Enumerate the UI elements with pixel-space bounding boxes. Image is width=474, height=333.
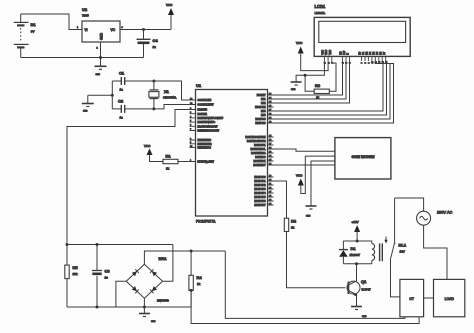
wire CT pin to R4 bottom xyxy=(191,290,419,323)
relay switch contacts xyxy=(391,198,400,297)
svg-text:RB2: RB2 xyxy=(261,103,266,105)
battery B1 xyxy=(14,14,37,58)
svg-text:RB0/INT: RB0/INT xyxy=(257,95,266,97)
svg-text:RB3/PGM: RB3/PGM xyxy=(255,107,265,109)
resistor R5 xyxy=(65,245,79,308)
svg-text:R4: R4 xyxy=(197,275,203,280)
svg-text:Q1: Q1 xyxy=(361,279,367,284)
svg-text:X1: X1 xyxy=(164,89,170,94)
svg-text:B1: B1 xyxy=(31,22,37,27)
svg-text:GND: GND xyxy=(291,89,296,91)
svg-text:R5: R5 xyxy=(73,265,79,270)
capacitor C2 xyxy=(112,99,154,120)
svg-text:RC1/T1OSI/CCP2: RC1/T1OSI/CCP2 xyxy=(247,141,266,143)
resistor R4 xyxy=(189,251,202,290)
svg-text:D7: D7 xyxy=(383,51,386,55)
capacitor C1 xyxy=(112,71,154,92)
svg-text:RC5/SDO: RC5/SDO xyxy=(255,157,265,159)
capacitor C3 xyxy=(92,245,111,308)
svg-text:12V: 12V xyxy=(400,250,405,254)
resistor R1 xyxy=(163,154,190,171)
CT box xyxy=(400,279,424,316)
node relay coil top xyxy=(356,240,359,243)
svg-text:OSC2/CLKOUT: OSC2/CLKOUT xyxy=(198,105,215,107)
svg-text:1k: 1k xyxy=(166,167,170,171)
svg-text:RE2/AN7/CS: RE2/AN7/CS xyxy=(198,147,212,150)
svg-text:VO: VO xyxy=(111,28,116,32)
svg-text:1n: 1n xyxy=(120,88,124,92)
regulator U2 7805 xyxy=(77,7,124,50)
wire R2 to Q1 base xyxy=(287,232,346,288)
svg-text:PIC16F877A: PIC16F877A xyxy=(196,220,216,224)
wire LCD RS to U1 RB0 xyxy=(274,61,343,95)
svg-text:GND: GND xyxy=(100,32,104,40)
svg-text:OSC1/CLKIN: OSC1/CLKIN xyxy=(198,100,212,102)
svg-text:RA1/AN1: RA1/AN1 xyxy=(198,113,208,116)
svg-text:VCC: VCC xyxy=(296,41,303,45)
bridge rectifier BR1 xyxy=(126,256,169,303)
svg-text:VDD: VDD xyxy=(325,49,328,54)
node crystal top xyxy=(152,80,155,83)
svg-text:7: 7 xyxy=(362,62,364,64)
svg-text:RD6/PSP6: RD6/PSP6 xyxy=(254,201,266,203)
wire U2 gnd stem xyxy=(100,42,102,58)
svg-text:9: 9 xyxy=(369,62,371,64)
svg-text:9V: 9V xyxy=(31,30,35,34)
wire LCD RW to U1 RB1 xyxy=(274,61,347,99)
svg-text:1: 1 xyxy=(77,27,79,29)
svg-text:CT: CT xyxy=(409,297,414,301)
svg-text:1N4007: 1N4007 xyxy=(350,253,361,257)
GSM modem module xyxy=(335,138,391,179)
svg-text:RE1/AN6/WR: RE1/AN6/WR xyxy=(198,143,212,146)
crystal X1 xyxy=(149,81,177,109)
junction node C4 top xyxy=(142,28,145,31)
svg-text:RD7/PSP7: RD7/PSP7 xyxy=(254,205,266,207)
svg-text:RC7/RX/DT: RC7/RX/DT xyxy=(253,165,266,167)
svg-text:RB7/PGD: RB7/PGD xyxy=(255,123,265,125)
power VCC (GSM) xyxy=(296,156,335,193)
svg-text:GND: GND xyxy=(83,111,88,113)
svg-text:RA3/AN3/VREF+: RA3/AN3/VREF+ xyxy=(198,121,216,124)
wire relay loop top xyxy=(343,240,366,242)
svg-text:10: 10 xyxy=(372,60,374,63)
svg-text:RB6/PGC: RB6/PGC xyxy=(255,119,265,121)
relay RL1 coil xyxy=(367,237,407,264)
wire rail1 (DC sense) xyxy=(67,244,173,246)
wire gnd to rail xyxy=(88,94,113,96)
svg-text:C3: C3 xyxy=(105,269,111,274)
svg-text:RD5/PSP5: RD5/PSP5 xyxy=(254,197,266,199)
wire LCD VSS to ground xyxy=(296,61,324,82)
wire U2 output to VCC xyxy=(120,29,171,31)
AC source 230V xyxy=(395,198,453,279)
wire bridge left vertex down xyxy=(116,281,126,307)
power +12V (relay) xyxy=(352,220,361,241)
node crystal bottom xyxy=(152,107,155,110)
svg-text:RA2/AN2/VREF-/CVREF: RA2/AN2/VREF-/CVREF xyxy=(198,117,224,120)
svg-text:2: 2 xyxy=(97,48,99,50)
svg-text:GND: GND xyxy=(306,216,311,218)
svg-text:LOAD: LOAD xyxy=(445,297,455,301)
svg-text:LCD1: LCD1 xyxy=(315,4,326,9)
capacitor C4 xyxy=(137,30,159,58)
svg-text:RD1/PSP1: RD1/PSP1 xyxy=(254,181,266,183)
node gnd rail junctions xyxy=(96,306,99,309)
wire bottom-left node to RA0 xyxy=(67,110,190,245)
wire LCD D4 to U1 RB4 xyxy=(274,61,384,111)
svg-text:GND: GND xyxy=(96,74,101,76)
node C1C2-gnd junction xyxy=(111,94,114,97)
svg-text:C2: C2 xyxy=(118,99,124,104)
wire LCD D6 to U1 RB6 xyxy=(274,61,391,119)
svg-text:RE0/AN5/RD: RE0/AN5/RD xyxy=(198,139,212,142)
svg-text:RA0/AN0: RA0/AN0 xyxy=(198,109,208,112)
svg-text:R1: R1 xyxy=(166,154,172,159)
svg-text:2W005G: 2W005G xyxy=(157,299,170,303)
wire relay loop bottom xyxy=(343,263,371,265)
svg-text:7805: 7805 xyxy=(82,14,89,18)
svg-text:VCC: VCC xyxy=(144,144,151,148)
svg-text:R3: R3 xyxy=(315,83,321,88)
svg-text:RB4: RB4 xyxy=(261,111,266,113)
svg-text:1u: 1u xyxy=(153,45,157,49)
svg-text:8: 8 xyxy=(365,62,367,64)
svg-text:BC547: BC547 xyxy=(362,288,372,292)
svg-text:1n: 1n xyxy=(120,116,124,120)
svg-text:1k: 1k xyxy=(291,226,295,230)
wire bridge bottom vertex stem xyxy=(143,298,145,307)
svg-text:VSS: VSS xyxy=(322,50,325,55)
wire CT to LOAD xyxy=(424,297,434,299)
svg-text:RD2/PSP2: RD2/PSP2 xyxy=(254,185,266,187)
wire battery to U2 xyxy=(21,14,82,30)
wire U1 RD1 to R2 xyxy=(274,181,287,218)
svg-text:VI: VI xyxy=(85,28,88,32)
wire U1 RC7 to GSM pin4 xyxy=(274,164,335,167)
svg-text:CRYSTAL: CRYSTAL xyxy=(163,96,177,100)
wire GSM pin3 to ground xyxy=(311,161,335,206)
svg-text:RD4/PSP4: RD4/PSP4 xyxy=(254,193,266,195)
resistor R2 xyxy=(284,218,297,231)
resistor R3 (LCD contrast) xyxy=(305,61,336,100)
svg-text:MCLR/Vpp/THV: MCLR/Vpp/THV xyxy=(198,162,215,164)
wire CT pin to rail riser xyxy=(225,251,405,318)
wire C1-C2 left rail xyxy=(111,81,113,109)
svg-text:U2: U2 xyxy=(82,7,88,12)
svg-text:BR1: BR1 xyxy=(159,256,168,261)
node rail2 R4 junction xyxy=(190,250,193,253)
svg-text:230V AC: 230V AC xyxy=(437,210,453,215)
transistor Q1 BC547 xyxy=(347,264,371,306)
wire to OSC1 xyxy=(154,81,190,100)
wire LCD D5 to U1 RB5 xyxy=(274,61,387,115)
svg-text:RL1: RL1 xyxy=(399,243,407,248)
svg-text:10k: 10k xyxy=(73,272,78,276)
wire ground rail (bottom) xyxy=(67,306,191,308)
node R5 top xyxy=(66,243,69,246)
microcontroller U1 PIC16F877A xyxy=(190,83,274,224)
svg-text:LM016L: LM016L xyxy=(315,11,326,15)
wire bottom rail (supply) xyxy=(21,57,144,59)
ground (crystal block) xyxy=(82,95,94,112)
node Q1 collector junction xyxy=(355,262,358,265)
svg-text:RC6/TX/CK: RC6/TX/CK xyxy=(254,161,266,163)
svg-text:RC0/T1OSO/T1CKI: RC0/T1OSO/T1CKI xyxy=(245,137,266,139)
svg-text:RC2/CCP1: RC2/CCP1 xyxy=(254,145,266,147)
svg-text:1u: 1u xyxy=(105,276,109,280)
svg-text:RB1: RB1 xyxy=(261,99,266,101)
diode D1 1N4007 xyxy=(339,241,360,264)
wire U1 RC3 to GSM pin1 xyxy=(274,149,335,151)
svg-text:VCC: VCC xyxy=(296,174,303,178)
ground (GSM) xyxy=(306,206,317,218)
svg-text:VCC: VCC xyxy=(166,3,173,7)
svg-text:VEE: VEE xyxy=(329,50,332,55)
svg-text:U1: U1 xyxy=(196,83,202,88)
svg-text:RC3/SCK/SCL: RC3/SCK/SCL xyxy=(250,149,266,151)
svg-text:3: 3 xyxy=(122,27,124,29)
svg-text:GSM MODEM: GSM MODEM xyxy=(352,155,375,159)
svg-text:R2: R2 xyxy=(291,219,297,224)
svg-text:RA4/T0CKI/C1OUT: RA4/T0CKI/C1OUT xyxy=(198,125,219,128)
ground (LCD) xyxy=(291,82,302,91)
node R4 bottom xyxy=(190,289,193,292)
svg-text:1k: 1k xyxy=(197,282,201,286)
ground (below U2) xyxy=(95,58,107,77)
power VCC (MCLR) xyxy=(144,144,163,162)
wire LCD E to U1 RB2 xyxy=(274,61,350,103)
wire to OSC2 xyxy=(154,105,190,109)
svg-text:GND: GND xyxy=(151,321,156,323)
svg-text:RC4/SDI/SDA: RC4/SDI/SDA xyxy=(251,152,266,155)
svg-text:C4: C4 xyxy=(153,38,159,43)
svg-text:RD3/PSP3: RD3/PSP3 xyxy=(254,189,266,191)
svg-text:D1: D1 xyxy=(351,246,357,251)
power VCC (LCD) xyxy=(296,41,328,71)
svg-text:E: E xyxy=(347,53,350,55)
wire R4 stem through rail xyxy=(190,290,192,307)
svg-text:C1: C1 xyxy=(119,71,125,76)
wire bridge right vertex to rail1 xyxy=(163,245,173,282)
svg-text:GND: GND xyxy=(362,316,367,318)
svg-text:RA5/AN4/SS/C2OUT: RA5/AN4/SS/C2OUT xyxy=(198,130,220,133)
svg-text:RD0/PSP0: RD0/PSP0 xyxy=(254,177,266,179)
svg-text:+12V: +12V xyxy=(352,220,359,224)
ground (Q1 emitter) xyxy=(351,307,367,319)
LCD display LCD1 LM016L xyxy=(314,4,410,64)
power VCC (top) xyxy=(166,3,174,30)
svg-text:RB5: RB5 xyxy=(261,115,266,117)
wire LCD D7 to U1 RB7 xyxy=(274,61,394,123)
ground (bridge) xyxy=(139,307,156,323)
LOAD box xyxy=(434,279,465,316)
node C3 top xyxy=(96,243,99,246)
wire bridge top vertex to rail2 xyxy=(144,251,225,264)
